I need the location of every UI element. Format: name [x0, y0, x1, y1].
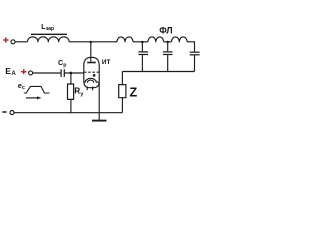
resistor Rу	[68, 84, 74, 99]
heater lead stubs	[87, 87, 92, 91]
tube cathode arc	[84, 78, 99, 82]
ground bar	[92, 120, 107, 122]
tube heater arc	[87, 80, 94, 83]
svg-text:Lзар: Lзар	[41, 24, 54, 32]
terminal circle bottom-left	[10, 111, 14, 115]
inductor L_зар core bar	[31, 33, 67, 35]
wire top rail right end with corner down	[187, 42, 194, 52]
svg-text:Z: Z	[130, 85, 138, 99]
wire Rу bottom lead	[70, 99, 72, 112]
svg-text:ИТ: ИТ	[102, 59, 111, 66]
wire top rail between L1 and L2	[133, 41, 148, 43]
ground stub	[98, 113, 100, 120]
terminal circle Ea	[29, 71, 33, 75]
inductor PFN L1	[117, 37, 133, 42]
svg-text:ес: ес	[18, 81, 25, 91]
plus polarity mark top-left (red)	[3, 37, 8, 42]
tube grid (dashed)	[84, 71, 99, 73]
wire Ру top lead	[70, 73, 72, 84]
inductor PFN L3	[172, 37, 188, 42]
capacitor PFN C1	[138, 42, 148, 72]
node C2 junction	[166, 41, 169, 44]
node grid/R junction	[70, 72, 73, 75]
inductor PFN L2	[148, 37, 164, 42]
svg-text:ФЛ: ФЛ	[159, 25, 172, 35]
capacitor PFN C2	[163, 42, 173, 72]
wire PFN bottom rail	[122, 71, 194, 73]
wire anode lead	[90, 42, 92, 62]
wire Z top lead	[121, 72, 123, 85]
node C1 junction	[141, 41, 144, 44]
wire to coupling cap	[33, 72, 61, 74]
svg-text:Rу: Rу	[74, 87, 84, 98]
capacitor Cр plates	[61, 69, 64, 77]
wire top rail left	[15, 41, 27, 43]
gas-filling dot	[93, 74, 96, 77]
tube anode plate	[87, 62, 96, 64]
wire grid lead	[65, 72, 84, 74]
wire Z bottom lead	[121, 98, 123, 113]
wire top rail middle	[69, 41, 117, 43]
wire bottom rail	[14, 112, 122, 114]
svg-text:ЕА: ЕА	[5, 66, 16, 77]
wire cathode lead down	[98, 82, 100, 113]
waveform ec pulse	[24, 86, 50, 93]
minus polarity mark bottom-left	[2, 111, 6, 113]
node anode junction	[90, 41, 93, 44]
wire top rail between L2 and L3	[164, 41, 172, 43]
inductor L_зар coil	[28, 37, 70, 42]
plus polarity mark Ea (red)	[21, 69, 26, 74]
arrow under pulse	[26, 96, 42, 99]
svg-text:Cр: Cр	[58, 58, 66, 69]
capacitor PFN C3 (in right edge)	[190, 52, 200, 71]
tube ИТ envelope	[84, 57, 99, 87]
terminal circle top-left	[11, 40, 15, 44]
block Z	[119, 85, 126, 98]
